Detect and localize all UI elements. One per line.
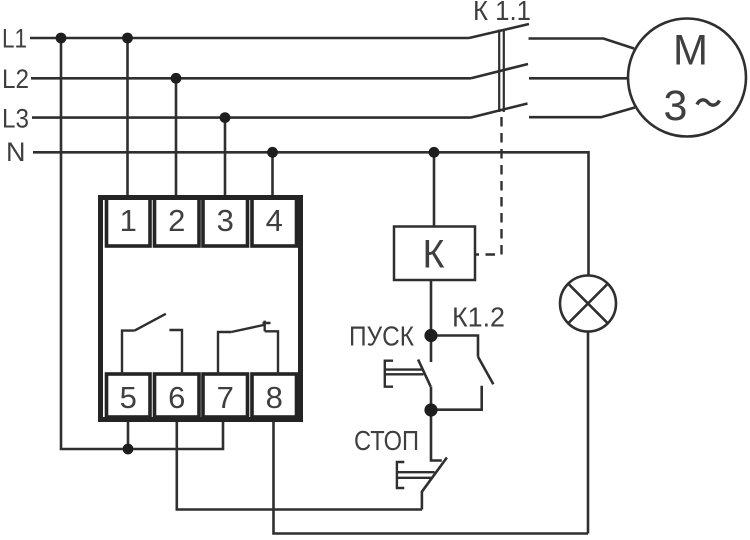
svg-text:M: M (673, 27, 708, 75)
stop button СТОП blade (422, 458, 447, 492)
junction dot start button bottom (424, 403, 437, 416)
junction dot N coil K (429, 147, 440, 158)
relay internal contact 7-8 time mark (263, 321, 271, 332)
lamp circle (560, 276, 616, 332)
wire terminal 4 drop (271, 152, 274, 197)
junction dot L3 terminal 3 (220, 112, 231, 123)
start button ПУСК blade (418, 360, 431, 387)
junction dot L2 terminal 2 (171, 73, 182, 84)
terminal box 3 (203, 198, 248, 247)
terminal box 6 (155, 374, 200, 417)
lamp cross (568, 284, 608, 324)
contactor K1.1 pole 3 wire to motor (529, 108, 635, 118)
svg-text:3: 3 (217, 203, 234, 238)
svg-text:5: 5 (120, 380, 137, 415)
coil K wire from N (433, 152, 436, 226)
stop button СТОП actuator rods (397, 472, 435, 478)
coil K box (394, 227, 475, 281)
svg-text:СТОП: СТОП (354, 425, 419, 456)
contactor K1.1 pole 2 wire to motor (529, 77, 629, 80)
svg-text:L3: L3 (2, 104, 29, 134)
terminal box 7 (203, 374, 248, 417)
relay internal contact 7-8 left leg (218, 332, 231, 375)
contactor K1.1 pole 2 blade (471, 64, 528, 78)
relay internal contact 5-6 right leg (169, 330, 182, 375)
wire L2 (31, 77, 471, 80)
junction dot terminal 5 wire (123, 444, 134, 455)
svg-text:2: 2 (168, 203, 185, 238)
wire L3 (32, 116, 471, 119)
svg-text:6: 6 (168, 380, 185, 415)
start button ПУСК actuator bracket (385, 361, 393, 387)
coil K wire to start button node (430, 280, 433, 336)
svg-text:ПУСК: ПУСК (349, 321, 415, 352)
relay internal contact 5-6 blade (135, 314, 166, 331)
lamp bottom wire (587, 332, 590, 534)
svg-text:L1: L1 (2, 24, 27, 54)
terminal box 1 (107, 198, 151, 247)
junction dot start button top (424, 329, 437, 342)
junction dot N terminal 4 (267, 147, 278, 158)
junction dot L1 terminal 1 (122, 33, 133, 44)
wire terminal 8 to lamp bottom (274, 419, 589, 534)
svg-text:N: N (6, 137, 26, 167)
wire terminal 2 drop (175, 78, 178, 197)
stop button СТОП lower leg (421, 491, 424, 510)
terminal box 5 (107, 374, 151, 417)
contactor K1.1 pole 1 blade (469, 24, 529, 38)
svg-text:3: 3 (664, 82, 688, 130)
svg-text:L2: L2 (2, 64, 29, 94)
svg-text:К 1.1: К 1.1 (473, 0, 531, 26)
terminal box 4 (252, 198, 297, 247)
relay internal contact 5-6 left leg (122, 331, 135, 375)
relay internal contact 7-8 blade (231, 325, 264, 332)
wire terminal 1 drop (126, 38, 129, 198)
svg-text:1: 1 (120, 203, 137, 238)
terminal box 8 (252, 374, 297, 417)
wire terminal 6 to stop button (177, 419, 422, 510)
junction dot L1 left drop (56, 33, 67, 44)
motor M circle (628, 19, 746, 137)
svg-text:К1.2: К1.2 (452, 302, 505, 333)
wire terminal 3 drop (224, 118, 227, 198)
terminal box 2 (155, 198, 200, 247)
wire N (33, 152, 589, 276)
relay internal contact 7-8 right leg (265, 331, 278, 374)
svg-text:4: 4 (266, 203, 283, 238)
contactor K1.1 linkage dashed link to coil K (476, 117, 502, 255)
contactor K1.1 linkage bar (499, 30, 504, 113)
motor tilde (697, 100, 720, 105)
stop button СТОП actuator bracket (397, 462, 404, 488)
svg-text:К: К (423, 233, 446, 277)
auxiliary contact K1.2 upper branch (431, 336, 478, 357)
start button ПУСК actuator rods (385, 370, 424, 375)
wire L1 to terminals 5 and 7 (61, 38, 223, 449)
wire terminal 5 drop (127, 419, 130, 450)
svg-text:8: 8 (266, 380, 283, 415)
svg-text:7: 7 (217, 380, 234, 415)
wire L1 (30, 37, 469, 40)
start button ПУСК lower leg (430, 387, 433, 411)
contactor K1.1 pole 3 blade (471, 104, 528, 118)
auxiliary contact K1.2 blade (478, 357, 493, 385)
stop button СТОП upper leg (431, 410, 442, 461)
auxiliary contact K1.2 lower branch (431, 386, 482, 410)
relay device outer box (101, 198, 301, 420)
contactor K1.1 pole 1 wire to motor (529, 39, 635, 49)
start button ПУСК upper leg (430, 336, 433, 363)
